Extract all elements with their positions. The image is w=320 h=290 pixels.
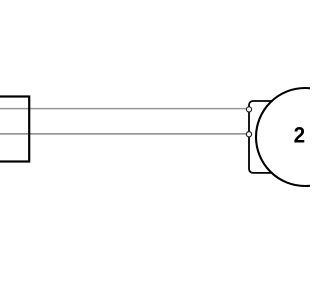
- svg-text:2: 2: [294, 123, 306, 148]
